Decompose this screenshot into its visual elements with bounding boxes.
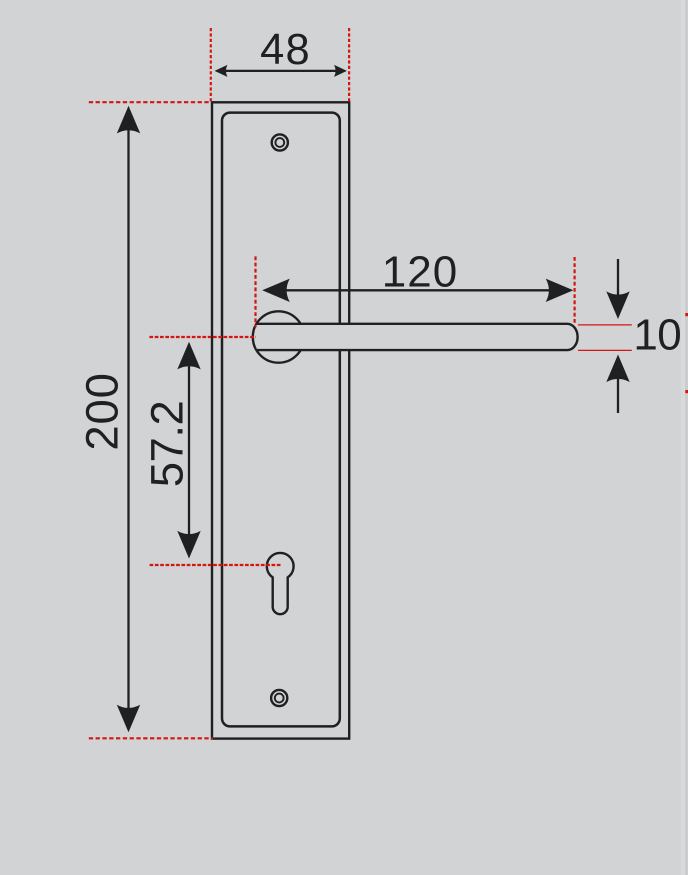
svg-text:48: 48 xyxy=(260,26,311,74)
dim 57.2: keyhole-center extension (red dashed horizontal) xyxy=(150,564,282,566)
top screw xyxy=(272,134,288,150)
dim 10: up arrow xyxy=(606,355,629,414)
dim 48: extension line right (red dashed vertical) xyxy=(348,28,350,103)
dim 57.2: dimension line with arrows xyxy=(177,342,200,559)
dim 57.2: handle-center extension (red dashed horizontal) xyxy=(149,336,255,338)
right edge subtle strip xyxy=(681,0,685,875)
svg-text:120: 120 xyxy=(382,247,458,296)
handle hub circle xyxy=(253,311,304,362)
svg-text:200: 200 xyxy=(76,372,127,450)
handle lever bar xyxy=(257,324,578,350)
dim 10: bottom red thin line (lever bottom edge extension) xyxy=(578,349,632,351)
dim 120: left extension (red dashed vertical) xyxy=(254,256,256,327)
svg-text:10: 10 xyxy=(633,311,681,360)
dim 120: dimension line with arrows xyxy=(262,279,573,302)
bottom screw xyxy=(271,690,287,706)
right edge cropped red dash lower xyxy=(685,390,688,393)
dim 10: top red thin line (lever top edge extension) xyxy=(578,324,632,326)
dim 48: dimension line with arrows xyxy=(215,65,347,77)
dim 48: extension line left (red dashed vertical) xyxy=(210,28,212,103)
right edge cropped red dash upper xyxy=(685,313,688,316)
keyhole xyxy=(267,553,294,614)
backplate inner rounded rectangle xyxy=(222,113,340,727)
dim 10: down arrow xyxy=(606,259,629,319)
dim 200: bottom extension (red dashed horizontal) xyxy=(89,737,213,739)
svg-text:57.2: 57.2 xyxy=(141,401,192,488)
dim 200: dimension line with arrows xyxy=(117,106,140,733)
backplate outer rectangle xyxy=(212,102,349,738)
dim 120: right extension (red dashed vertical) xyxy=(573,257,575,323)
dim 200: top extension (red dashed horizontal) xyxy=(89,101,211,103)
